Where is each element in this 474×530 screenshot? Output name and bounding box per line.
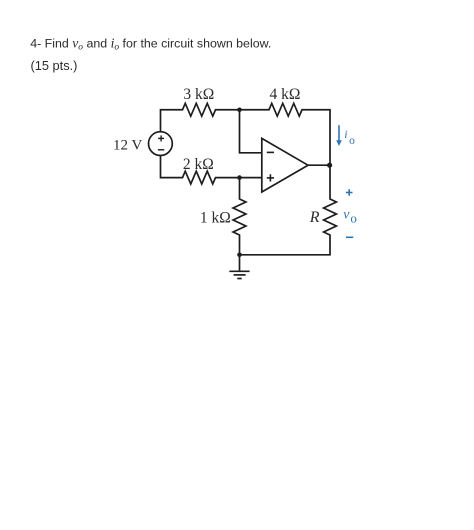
svg-text:2 kΩ: 2 kΩ [183, 156, 214, 173]
svg-text:4 kΩ: 4 kΩ [270, 86, 301, 103]
svg-text:12 V: 12 V [113, 138, 142, 154]
svg-text:4- Find vo and io for the circ: 4- Find vo and io for the circuit shown … [30, 35, 271, 52]
svg-text:1 kΩ: 1 kΩ [200, 210, 231, 227]
svg-text:R: R [309, 209, 320, 226]
svg-text:v: v [343, 208, 350, 223]
svg-text:(15 pts.): (15 pts.) [31, 58, 78, 73]
svg-text:o: o [349, 135, 355, 147]
svg-text:3 kΩ: 3 kΩ [183, 86, 214, 103]
svg-text:o: o [350, 210, 357, 225]
svg-text:i: i [344, 127, 347, 141]
